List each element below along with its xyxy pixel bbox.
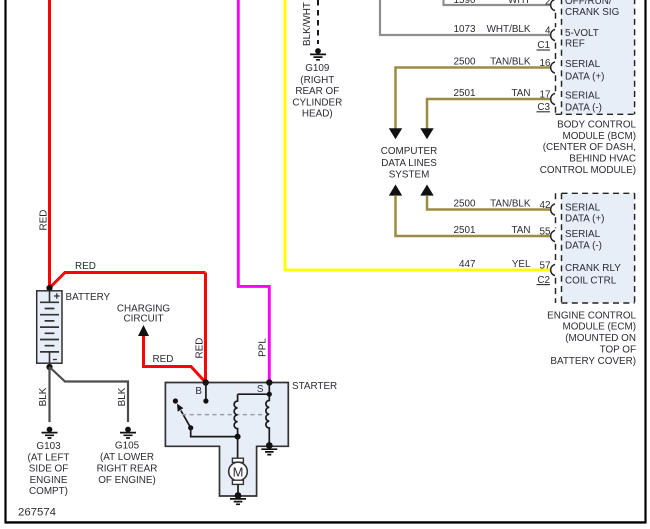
pin 2 BCM xyxy=(551,0,555,11)
svg-text:(CENTER OF DASH,: (CENTER OF DASH, xyxy=(543,142,636,153)
arrow up (to 2500 ECM) xyxy=(420,185,433,196)
wire BLK battery to G103 xyxy=(48,367,50,422)
svg-text:ENGINE: ENGINE xyxy=(30,475,68,486)
label SERIAL DATA (-) BCM xyxy=(565,90,602,113)
node B terminal xyxy=(203,379,209,385)
wire S junction bar xyxy=(238,383,270,395)
pin 17 BCM xyxy=(551,93,555,104)
svg-text:BATTERY: BATTERY xyxy=(66,292,111,303)
svg-text:WHT: WHT xyxy=(508,0,530,6)
svg-text:(AT LOWER: (AT LOWER xyxy=(100,452,154,463)
svg-text:CONTROL MODULE): CONTROL MODULE) xyxy=(540,165,636,176)
node battery negative junction xyxy=(46,364,52,370)
svg-text:1590: 1590 xyxy=(454,0,476,6)
label SERIAL DATA (-) ECM xyxy=(565,229,602,252)
svg-text:CYLINDER: CYLINDER xyxy=(292,97,342,108)
svg-text:YEL: YEL xyxy=(512,259,531,270)
svg-text:CRANK SIG: CRANK SIG xyxy=(565,7,619,18)
wire PPL to starter S terminal xyxy=(238,0,269,383)
svg-text:WHT/BLK: WHT/BLK xyxy=(487,24,531,35)
pin 55 ECM xyxy=(551,230,555,241)
label 1073 WHT/BLK 4 xyxy=(454,24,551,36)
label SERIAL DATA (+) ECM xyxy=(565,203,604,225)
label 2501 TAN 17 xyxy=(454,88,551,100)
svg-text:PPL: PPL xyxy=(258,338,269,357)
pin 57 ECM xyxy=(551,264,555,275)
wire 2501 TAN ECM pin 55 xyxy=(396,195,551,236)
starter M1 body xyxy=(165,383,288,497)
svg-text:16: 16 xyxy=(540,58,551,69)
svg-text:DATA (-): DATA (-) xyxy=(565,241,602,252)
svg-text:BLK: BLK xyxy=(117,387,128,406)
svg-text:DATA LINES: DATA LINES xyxy=(381,158,437,169)
svg-text:DATA (-): DATA (-) xyxy=(565,102,602,113)
label 1590 WHT 2 (clipped at top) xyxy=(454,0,551,8)
svg-text:57: 57 xyxy=(540,260,551,271)
pin 4 BCM xyxy=(551,29,555,40)
svg-text:REF: REF xyxy=(565,39,585,50)
mechanical link dashed xyxy=(182,414,266,416)
battery xyxy=(37,291,62,363)
svg-text:42: 42 xyxy=(540,200,551,211)
svg-text:DATA (+): DATA (+) xyxy=(565,71,604,82)
node switch upper contact xyxy=(173,398,178,403)
svg-text:5-VOLT: 5-VOLT xyxy=(565,28,599,39)
svg-text:G105: G105 xyxy=(115,441,140,452)
svg-text:17: 17 xyxy=(540,90,551,101)
svg-text:COMPT): COMPT) xyxy=(29,486,68,497)
wire B terminal to contact xyxy=(205,383,207,399)
pin 16 BCM xyxy=(551,62,555,73)
svg-text:2501: 2501 xyxy=(454,88,476,99)
label BCM caption xyxy=(540,119,637,176)
node motor junction xyxy=(235,434,241,440)
wire 2500 TAN/BLK BCM pin 16 xyxy=(396,68,551,129)
svg-text:ENGINE CONTROL: ENGINE CONTROL xyxy=(547,310,636,321)
svg-text:G103: G103 xyxy=(36,441,61,452)
label C2 xyxy=(537,275,551,286)
svg-text:G109: G109 xyxy=(305,63,330,74)
svg-text:TAN: TAN xyxy=(511,225,530,236)
ground G109 xyxy=(310,48,326,60)
ground starter motor xyxy=(230,492,246,504)
ground starter solenoid xyxy=(261,442,277,455)
svg-text:DATA (+): DATA (+) xyxy=(565,214,604,225)
module U1 body control module BCM xyxy=(556,0,635,114)
label G105 location xyxy=(97,441,158,487)
svg-text:RED: RED xyxy=(195,338,206,359)
label G109 location xyxy=(292,63,342,120)
wire 1073 WHT/BLK to BCM pin 4 xyxy=(380,0,550,35)
svg-text:MODULE (ECM): MODULE (ECM) xyxy=(562,322,636,333)
svg-text:TAN/BLK: TAN/BLK xyxy=(490,57,531,68)
svg-text:OF ENGINE): OF ENGINE) xyxy=(98,475,156,486)
svg-text:B: B xyxy=(195,386,202,397)
arrow down (2500 to data lines) xyxy=(389,128,402,139)
svg-text:SERIAL: SERIAL xyxy=(565,229,601,240)
wire BLK battery to G105 xyxy=(50,367,129,422)
svg-text:447: 447 xyxy=(459,259,475,270)
motor M xyxy=(229,437,248,493)
label CHARGING CIRCUIT xyxy=(117,304,170,325)
label G103 location xyxy=(28,441,70,497)
label C3 xyxy=(537,102,551,113)
wire 2500 TAN/BLK ECM pin 42 xyxy=(427,195,550,209)
svg-text:SERIAL: SERIAL xyxy=(565,90,601,101)
label 2500 TAN/BLK 42 xyxy=(454,199,551,211)
label 5-VOLT REF xyxy=(565,28,599,50)
svg-text:TOP OF: TOP OF xyxy=(600,345,636,356)
ground G103 xyxy=(42,427,58,438)
wire RED main feed from top xyxy=(50,0,206,383)
label C1 xyxy=(537,40,551,51)
label OFF/RUN/CRANK SIG xyxy=(565,0,619,18)
svg-text:2501: 2501 xyxy=(454,225,476,236)
svg-text:BODY CONTROL: BODY CONTROL xyxy=(557,119,636,130)
svg-text:BLK/WHT: BLK/WHT xyxy=(302,2,313,46)
node B contact xyxy=(203,398,208,403)
switch arm S1 xyxy=(177,404,193,431)
wire switch to motor junction xyxy=(191,428,238,437)
arrow to charging circuit xyxy=(138,325,149,336)
svg-text:(AT LEFT: (AT LEFT xyxy=(28,452,70,463)
svg-text:HEAD): HEAD) xyxy=(302,109,333,120)
svg-text:RED: RED xyxy=(39,210,50,231)
svg-text:BEHIND HVAC: BEHIND HVAC xyxy=(569,154,636,165)
svg-text:TAN/BLK: TAN/BLK xyxy=(490,199,531,210)
svg-text:MODULE (BCM): MODULE (BCM) xyxy=(562,131,636,142)
module U2 engine control module ECM xyxy=(556,193,635,303)
svg-text:OFF/RUN/: OFF/RUN/ xyxy=(565,0,612,7)
label 2501 TAN 55 xyxy=(454,225,551,237)
svg-text:RED: RED xyxy=(75,261,96,272)
wire YEL crank relay coil control xyxy=(285,0,550,270)
svg-text:1073: 1073 xyxy=(454,24,476,35)
svg-text:SIDE OF: SIDE OF xyxy=(29,464,69,475)
wire RED charging circuit branch xyxy=(144,335,206,383)
arrow down (2501 to data lines) xyxy=(420,128,433,139)
svg-text:COIL CTRL: COIL CTRL xyxy=(565,276,617,287)
svg-text:SYSTEM: SYSTEM xyxy=(389,170,430,181)
svg-text:(MOUNTED ON: (MOUNTED ON xyxy=(565,333,636,344)
label 447 YEL 57 xyxy=(459,259,550,271)
svg-text:SERIAL: SERIAL xyxy=(565,59,601,70)
label ECM caption xyxy=(547,310,636,367)
svg-text:BATTERY COVER): BATTERY COVER) xyxy=(550,356,636,367)
wire 2501 TAN BCM pin 17 xyxy=(427,99,550,129)
svg-text:SERIAL: SERIAL xyxy=(565,203,601,214)
label SERIAL DATA (+) BCM xyxy=(565,59,604,83)
wire 1590 WHT to BCM pin 2 xyxy=(444,0,551,5)
arrow up (to 2501 ECM) xyxy=(389,185,402,196)
svg-text:TAN: TAN xyxy=(511,88,530,99)
coil L1 pull-in winding xyxy=(234,394,237,436)
svg-text:2500: 2500 xyxy=(454,199,476,210)
svg-text:CRANK RLY: CRANK RLY xyxy=(565,263,621,274)
wire BLK/WHT dashed to G109 xyxy=(317,0,319,44)
svg-text:COMPUTER: COMPUTER xyxy=(381,146,438,157)
label CRANK RLY COIL CTRL xyxy=(565,263,621,287)
svg-text:55: 55 xyxy=(540,227,551,238)
ground G105 xyxy=(120,427,136,438)
svg-text:2500: 2500 xyxy=(454,57,476,68)
label COMPUTER DATA LINES SYSTEM xyxy=(381,146,438,181)
svg-text:2: 2 xyxy=(545,0,551,8)
node S coil junction xyxy=(267,392,272,397)
svg-text:267574: 267574 xyxy=(18,507,56,519)
node battery positive junction xyxy=(46,285,52,291)
node S terminal xyxy=(266,379,272,385)
label 2500 TAN/BLK 16 xyxy=(454,57,551,69)
svg-text:BLK: BLK xyxy=(38,387,49,406)
svg-text:M: M xyxy=(233,464,244,479)
svg-text:STARTER: STARTER xyxy=(292,381,337,392)
svg-text:CIRCUIT: CIRCUIT xyxy=(123,314,163,325)
svg-text:RIGHT REAR: RIGHT REAR xyxy=(97,464,158,475)
coil L2 hold-in winding xyxy=(266,394,269,445)
pin 42 ECM xyxy=(551,204,555,215)
svg-text:REAR OF: REAR OF xyxy=(295,86,339,97)
svg-text:RED: RED xyxy=(153,354,174,365)
svg-text:(RIGHT: (RIGHT xyxy=(300,75,334,86)
